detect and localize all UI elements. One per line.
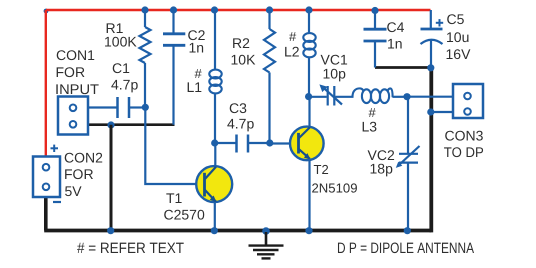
svg-text:C2570: C2570 [164,207,205,223]
node CON1 pin2 / ground branch dot [107,121,114,128]
svg-text:16V: 16V [446,46,472,62]
wire C5 bottom stem [430,40,432,68]
wire C2 top from rail [172,10,174,34]
connector CON3 [453,84,483,118]
wire CON1 pin1 to C1 [88,106,117,108]
wire node to CON3 pin1 (crosses ground line) [407,96,453,98]
VC1 arrowhead [319,84,327,92]
wire black CON1 pin2 horizontal [88,123,175,126]
svg-text:L3: L3 [362,118,378,134]
wire T1 emitter to rail [214,202,216,231]
svg-text:L2: L2 [284,44,300,60]
wire VC2 bottom stem to rail [407,163,409,231]
wire L1 bottom to T1 collector node [214,93,216,143]
node L3/VC2/CON3 junction dot [403,93,410,100]
svg-text:CON1: CON1 [56,47,95,63]
node L1/T1/C3 junction dot [211,139,218,146]
svg-text:# = REFER TEXT: # = REFER TEXT [77,240,184,257]
wire C2 bottom to black net [172,45,174,124]
svg-text:FOR: FOR [64,166,94,182]
wire black drop from CON1 pin2 to bottom rail [110,125,113,231]
C5 plus sign [436,19,443,26]
svg-text:1n: 1n [387,36,403,52]
wire C5 top from red rail end [430,10,432,29]
capacitor C4 [364,29,387,41]
node CON3 pin2 / ground dot [427,108,434,115]
wire L2 bottom to VC1 node [308,57,310,97]
wire black CON2 to bottom rail [44,197,48,231]
wire CON3 pin2 [431,111,453,113]
node VC2/rail dot [404,227,411,234]
wire red left vertical to CON2 + [45,10,47,157]
svg-text:CON3: CON3 [445,127,484,143]
VC2 arrowhead [396,162,403,168]
svg-text:CON2: CON2 [64,149,103,165]
inductor L3 [352,88,392,103]
svg-text:2N5109: 2N5109 [312,181,358,196]
wire black right vertical (C5/CON3 ground) [429,68,433,233]
svg-text:10u: 10u [446,29,469,45]
resistor R2 [264,29,275,72]
wire red supply top rail [46,9,431,12]
svg-text:T1: T1 [166,190,183,206]
wire VC2 top stem [407,97,409,154]
resistor R1 [140,27,151,63]
svg-text:4.7p: 4.7p [227,116,254,132]
svg-text:1n: 1n [189,39,205,55]
svg-text:18p: 18p [370,160,394,176]
wire R2 top from rail [268,10,270,29]
wire node to T1 base [145,108,196,185]
node bottom rail dots [107,227,270,235]
svg-text:10p: 10p [323,66,347,82]
wire L2 top from rail [308,10,310,33]
svg-text:5V: 5V [65,183,83,199]
svg-text:C1: C1 [112,60,130,76]
connector CON1 [58,97,88,135]
svg-text:T2: T2 [314,162,329,177]
wire node to VC1 [309,96,327,98]
node R1/C1 junction dot [142,104,149,111]
wire VC1 to L3 [335,96,353,98]
svg-text:#: # [289,29,297,44]
capacitor C5 (electrolytic) [421,28,443,31]
capacitor C3 [237,135,249,153]
transistor T1 [196,166,232,202]
wire C1 to node [130,106,145,108]
svg-text:4.7p: 4.7p [111,77,138,93]
node T2 emitter/rail dot [305,227,312,234]
CON2 plus sign [51,145,59,152]
wire R1 top from rail [144,10,146,27]
svg-text:C3: C3 [229,100,247,116]
svg-text:FOR: FOR [56,64,86,80]
svg-text:R2: R2 [232,35,250,51]
node L2/VC1/T2 collector junction dot [305,93,312,100]
capacitor C1 [118,97,130,118]
transistor T2 [290,127,324,161]
node C5/black link dot [427,64,434,71]
CON2 minus sign [53,201,61,203]
node rail dots on top red rail [141,6,378,14]
wire node to C3 [215,142,236,144]
capacitor C2 [163,34,185,46]
svg-text:C5: C5 [447,11,465,27]
svg-text:INPUT: INPUT [55,81,99,97]
wire R2 bottom to node [268,73,270,144]
wire C3 to R2 node [249,142,270,144]
ground [249,232,284,258]
wire L3 to VC2 node [393,96,408,98]
node T1 emitter/rail dot [211,227,218,234]
svg-text:L1: L1 [187,79,203,95]
svg-text:100K: 100K [104,34,137,50]
wire T2 emitter to rail [308,159,310,231]
inductor L1 [209,70,221,94]
wire node to T2 base [270,142,299,144]
inductor L2 [303,33,315,57]
svg-text:D P = DIPOLE ANTENNA: D P = DIPOLE ANTENNA [337,240,474,257]
wire T2 collector [308,97,310,128]
wire C4 top from rail [374,10,376,29]
variable capacitor VC1 [322,86,342,106]
wire black bottom ground rail [44,229,431,233]
wire L1 top from rail [214,10,216,70]
svg-text:10K: 10K [231,52,257,68]
node corner dot [44,9,49,14]
variable capacitor VC2 [398,146,420,166]
svg-text:C4: C4 [387,19,405,35]
node R2/C3/T2 base junction dot [266,139,273,146]
wire black C4-C5 bottom link [375,66,431,69]
connector CON2 [33,157,60,198]
wire C4 bottom to black link [374,41,376,68]
wire T1 collector [214,143,216,167]
svg-text:TO DP: TO DP [444,144,484,160]
wire R1 bottom to C1 node [144,63,146,108]
